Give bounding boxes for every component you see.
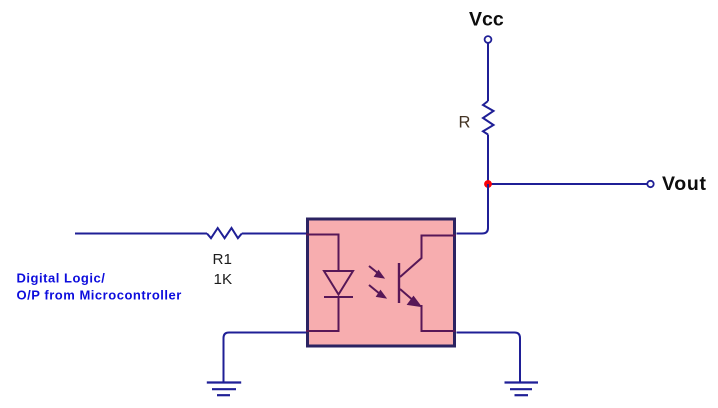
svg-text:1K: 1K xyxy=(214,271,233,288)
resistor R1 xyxy=(207,228,242,238)
LED D1 cathode bar xyxy=(324,296,353,298)
LED D1 triangle xyxy=(324,271,353,295)
terminal Vcc xyxy=(485,36,492,43)
value label R xyxy=(459,113,471,131)
svg-text:Vcc: Vcc xyxy=(469,9,504,31)
value label 1K xyxy=(214,271,233,288)
wire cathode pin to ground xyxy=(224,333,307,382)
svg-text:R1: R1 xyxy=(213,251,232,268)
wire Vcc to R xyxy=(487,43,489,101)
wire R1 to optocoupler anode pin xyxy=(242,233,306,235)
annotation Digital Logic xyxy=(17,270,182,302)
wire node to optocoupler collector pin xyxy=(457,184,489,234)
svg-text:R: R xyxy=(459,113,471,131)
svg-text:Vout: Vout xyxy=(662,173,707,195)
wire R to node xyxy=(487,135,489,185)
phototransistor Q1 collector xyxy=(400,236,456,278)
wire emitter pin to ground xyxy=(457,333,521,382)
node junction (red) xyxy=(484,180,492,188)
ground left xyxy=(207,383,241,396)
wire input to R1 xyxy=(75,233,207,235)
svg-text:Digital Logic/: Digital Logic/ xyxy=(17,270,106,285)
LED D1 anode wire xyxy=(306,235,339,272)
value label R1 xyxy=(213,251,232,268)
LED D1 cathode wire xyxy=(306,297,339,331)
phototransistor Q1 emitter xyxy=(400,289,456,331)
net label Vout xyxy=(662,173,707,195)
ground right xyxy=(505,383,539,396)
terminal Vout xyxy=(647,181,653,187)
phototransistor Q1 base xyxy=(398,263,400,303)
optocoupler U1 body xyxy=(308,219,455,346)
wire node to Vout xyxy=(488,183,647,185)
light arrow 1 xyxy=(369,266,384,278)
net label Vcc xyxy=(469,9,504,31)
svg-text:O/P from Microcontroller: O/P from Microcontroller xyxy=(17,287,182,302)
light arrow 2 xyxy=(369,285,386,298)
resistor R xyxy=(483,101,494,135)
